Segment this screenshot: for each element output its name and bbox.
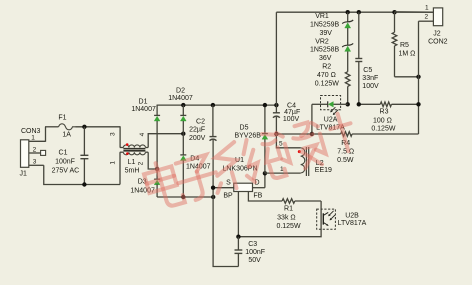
wire J1 pin1 up to fuse [45,127,59,142]
svg-text:4: 4 [139,132,146,136]
svg-text:1: 1 [109,161,116,165]
node R5 top [392,10,396,14]
capacitor C5 33nF 100V [355,12,379,104]
capacitor C1 [52,127,89,185]
inductor L1 5mH common-mode choke [120,143,148,174]
node drain [263,171,267,175]
zener VR2 1N5258B [310,38,353,71]
top feedback rail [276,11,433,13]
svg-text:CON2: CON2 [428,38,448,45]
svg-text:D5: D5 [240,125,249,132]
wire C4 bottom to feedback node [276,133,312,135]
node BP/emitter [236,235,240,239]
svg-text:VR1: VR1 [315,13,329,20]
svg-text:0.125W: 0.125W [276,223,301,230]
resistor R4 7.5ohm [312,132,419,165]
wire LED cathode to output node [312,104,321,134]
svg-text:22µF: 22µF [189,127,205,134]
wire L1 pin1 rise [109,152,120,184]
svg-text:BYV26B: BYV26B [234,133,261,140]
node S [211,186,215,190]
svg-text:1N4007: 1N4007 [168,95,193,102]
node C4 bottom [274,132,278,136]
connector J1 (CON3) body [20,128,41,177]
svg-text:100 Ω: 100 Ω [373,117,392,124]
svg-text:F1: F1 [58,115,66,122]
svg-text:1M Ω: 1M Ω [399,50,416,57]
svg-text:EE19: EE19 [315,167,332,174]
svg-text:50V: 50V [248,257,261,264]
svg-text:0.5W: 0.5W [337,157,354,164]
svg-text:3: 3 [33,159,37,166]
node C5 top [357,10,361,14]
svg-text:200V: 200V [189,135,206,142]
inductor L2 EE19 [280,147,332,176]
resistor R2 470ohm [315,64,350,105]
svg-text:2: 2 [424,14,428,21]
wire fuse to C1 top node [76,126,121,128]
node C4 top / rail end [274,103,278,107]
svg-text:0.125W: 0.125W [371,126,396,133]
svg-text:100V: 100V [283,116,300,123]
svg-text:FB: FB [253,192,262,199]
optocoupler U2B LTV817A (phototransistor) [317,209,367,229]
svg-text:C3: C3 [248,241,257,248]
node R5/J2 junction [416,75,420,79]
svg-text:39V: 39V [319,30,332,37]
node R3 right [416,102,420,106]
svg-text:J1: J1 [20,171,28,178]
node C5 bottom [357,102,361,106]
svg-text:L1: L1 [128,159,136,166]
IC U1 LNK306PN [222,157,262,199]
zener VR1 1N5259B [310,12,353,45]
resistor R1 33kohm [276,199,321,230]
svg-text:0.125W: 0.125W [315,80,340,87]
svg-text:R5: R5 [400,42,409,49]
node C1 top [82,125,86,129]
fuse F1 [58,115,75,139]
node bridge AC2 [155,167,159,171]
node zener chain bottom [346,102,350,106]
resistor R5 1Mohm [392,12,418,77]
diode D5 BYV26B [234,105,267,173]
node D5 top [263,103,267,107]
wire J1 pin3 to bottom input [44,165,120,184]
svg-text:1N5259B: 1N5259B [310,22,340,29]
svg-text:S: S [226,179,231,186]
svg-text:1N5258B: 1N5258B [310,47,340,54]
svg-text:R2: R2 [322,64,331,71]
svg-text:C1: C1 [59,149,68,156]
svg-text:C5: C5 [363,67,372,74]
wire S to DC- node [213,187,234,189]
svg-text:VR2: VR2 [315,38,329,45]
J1 pin 1 [29,135,46,142]
svg-text:275V AC: 275V AC [52,168,80,175]
wire L1 pin3 drop [110,126,121,147]
capacitor C4 47uF 100V [273,102,300,134]
svg-text:D2: D2 [176,88,185,95]
diode D2 1N4007 [168,88,193,134]
svg-text:5mH: 5mH [125,167,140,174]
diode D3 1N4007 [130,169,160,197]
J1 pin 3 [29,159,44,166]
svg-text:33k Ω: 33k Ω [277,214,295,221]
svg-text:2: 2 [33,146,37,153]
svg-text:D1: D1 [139,98,148,105]
svg-text:U2B: U2B [345,212,359,219]
svg-text:1: 1 [31,135,35,142]
svg-text:100nF: 100nF [245,249,265,256]
watermark (decorative) [142,108,359,213]
svg-text:2: 2 [138,161,145,165]
svg-text:33nF: 33nF [362,75,378,82]
wire R1 to U2B collector/emitter loop [238,201,321,237]
wire C3 bottom return [213,197,238,267]
DC- rail [157,195,215,199]
J2 pin 1 wire [395,4,434,12]
svg-text:C2: C2 [196,118,205,125]
wire BP pin [237,192,239,237]
svg-text:BP: BP [223,192,233,199]
svg-text:100nF: 100nF [55,159,75,166]
node D2 top [181,103,185,107]
wire L1 pin2 to bridge [138,152,158,169]
svg-text:1A: 1A [62,132,71,139]
diode D1 1N4007 [131,98,160,169]
resistor R3 100ohm [359,102,419,133]
DC+ rail [157,104,276,106]
node C2 top [211,103,215,107]
svg-text:3: 3 [110,132,117,136]
svg-text:470 Ω: 470 Ω [317,72,336,79]
wire D pin [253,173,265,187]
svg-text:R3: R3 [380,109,389,116]
svg-text:1N4007: 1N4007 [131,106,156,113]
J1 pin 2 stub with open terminal [29,146,46,155]
svg-text:J2: J2 [433,30,441,37]
svg-text:36V: 36V [319,55,332,62]
svg-text:7.5 Ω: 7.5 Ω [337,149,354,156]
node output feedback [310,132,314,136]
svg-text:5: 5 [279,140,283,147]
optocoupler U2A LTV817A (LED) [316,96,348,132]
wire L2 pin5 stub [276,134,300,148]
wire C4 column up to top rail [275,12,277,105]
J2 pin 2 wire [419,14,434,134]
capacitor C3 100nF 50V [235,237,266,267]
svg-text:100V: 100V [362,83,379,90]
node bridge AC1 [181,132,185,136]
svg-text:U2A: U2A [324,116,338,123]
svg-text:R1: R1 [284,205,293,212]
svg-text:1: 1 [425,4,429,11]
connector J2 (CON2) body [428,8,448,45]
node zener rail [346,10,350,14]
node C1 bottom [82,182,86,186]
diode D4 1N4007 [180,134,210,197]
wire drain to L2 pin1 [265,172,301,174]
capacitor C2 22uF 200V [189,105,217,197]
wire FB pin [248,192,282,202]
wire L1 pin4 to bridge [139,132,184,147]
svg-text:LTV817A: LTV817A [338,220,367,227]
